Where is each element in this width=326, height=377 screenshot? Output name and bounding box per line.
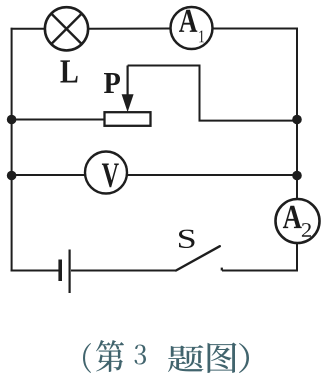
wire left rail xyxy=(11,28,13,272)
wire bottom: left corner to battery xyxy=(11,270,59,272)
label A2 subscript 2 xyxy=(302,223,311,237)
ammeter A1 xyxy=(171,7,213,49)
voltmeter V xyxy=(85,152,127,194)
rheostat P body xyxy=(105,112,151,126)
label S xyxy=(179,230,194,248)
junction left-voltmeter xyxy=(7,171,17,181)
junction right-voltmeter xyxy=(292,171,302,181)
label A1 subscript 1 xyxy=(199,30,204,42)
junction left-rheostat xyxy=(7,115,17,125)
rheostat wiper arrow xyxy=(122,66,133,111)
switch S blade xyxy=(176,246,220,270)
switch right contact nub xyxy=(221,268,223,271)
lamp L xyxy=(45,7,88,50)
wire bottom: battery to switch xyxy=(71,270,176,272)
ammeter A2 xyxy=(276,199,320,243)
wire top: lamp to ammeter A1 xyxy=(88,28,170,30)
wire bottom: switch to right corner xyxy=(222,270,298,272)
label P xyxy=(104,73,120,93)
wire top: left corner to lamp xyxy=(11,28,45,30)
junction right-wiper xyxy=(292,115,302,125)
wire top: A1 to right corner xyxy=(213,28,299,30)
battery negative plate (short thick) xyxy=(58,260,62,282)
wire right rail upper xyxy=(296,28,298,201)
battery positive plate (long thin) xyxy=(68,250,70,294)
wire wiper loop: up, right, down, right to rail xyxy=(128,66,298,121)
wire voltmeter row left xyxy=(12,174,86,176)
wire left rail to rheostat left terminal xyxy=(12,119,105,121)
wire right rail lower xyxy=(296,242,298,272)
label L xyxy=(60,60,77,82)
caption (第 3 题图) xyxy=(83,340,249,373)
wire voltmeter row right xyxy=(126,174,297,176)
